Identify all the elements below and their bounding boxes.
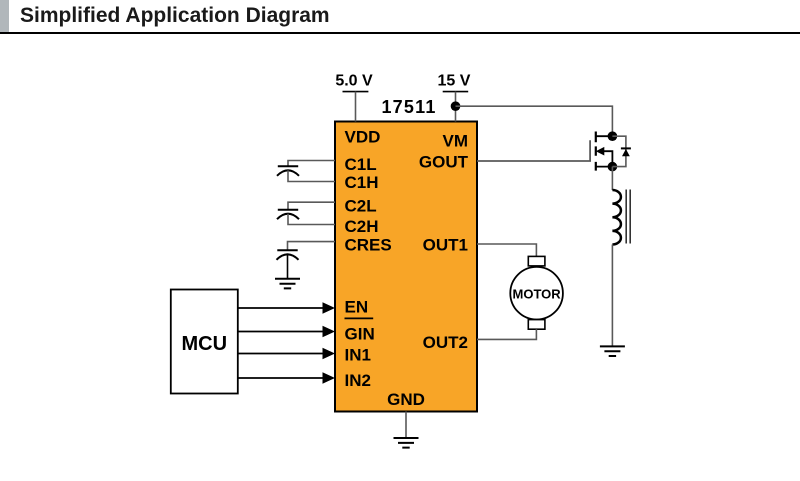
MCU box [171,290,238,394]
motor M1 circle [510,267,563,320]
ground under GND [394,438,419,448]
transistor Q1 channel segments [595,132,597,171]
capacitor C3 flat plate [277,249,297,251]
ground under inductor [600,346,625,356]
wire arrow MCU to EN [238,307,324,309]
svg-text:CRES: CRES [345,236,392,255]
header gray tab [0,0,9,32]
wire body diode branch [612,136,626,166]
node source dot [608,162,618,172]
wire 5.0V to VDD [355,92,357,122]
svg-text:GND: GND [387,390,425,409]
wire arrow MCU to IN2 [238,377,324,379]
svg-text:MCU: MCU [182,333,228,355]
motor bottom brush [528,320,545,330]
wire GND to ground [405,412,407,439]
svg-text:EN: EN [345,298,369,317]
capacitor C2 curved plate [277,214,299,220]
supply 5.0 V bar [343,91,369,93]
IC U1 17511 body [335,122,477,412]
inductor L1 core lines [626,190,630,244]
supply 15 V bar [443,91,469,93]
wire source to inductor [611,167,613,190]
wire inductor to ground [611,245,613,347]
capacitor C2 top wire (C2L) [288,202,335,210]
capacitor C1 top wire (C1L) [288,161,335,167]
wire 15V rail to MOSFET drain [456,106,613,132]
ground under C3 [275,279,300,289]
svg-text:C1H: C1H [345,173,379,192]
svg-text:VDD: VDD [345,128,381,147]
transistor Q1 body arrow [596,147,605,156]
inductor L1 coil [612,190,621,245]
wire 15V to VM [455,92,457,122]
svg-text:C2L: C2L [345,197,377,216]
svg-text:IN1: IN1 [345,346,371,365]
diode D1 triangle [622,149,630,156]
svg-text:OUT2: OUT2 [423,333,468,352]
capacitor C2 flat plate [278,209,298,211]
capacitor C1 bottom wire (C1H) [288,170,335,181]
svg-text:IN2: IN2 [345,371,371,390]
capacitor C2 bottom wire (C2H) [288,214,335,225]
svg-text:15 V: 15 V [438,73,471,90]
node 15V junction dot [451,101,461,111]
title text [20,4,330,28]
wire motor to OUT2 [477,329,536,339]
pin EN underline [345,317,374,319]
capacitor C3 curved plate [277,254,299,260]
svg-text:5.0 V: 5.0 V [335,73,373,90]
svg-text:C2H: C2H [345,217,379,236]
capacitor C3 wire (CRES) [288,242,336,251]
diode D1 cathode bar [621,147,631,149]
wire OUT1 to motor [477,244,536,257]
svg-text:17511: 17511 [381,97,436,117]
capacitor C1 curved plate [277,170,299,176]
wire arrow MCU to IN1 [238,353,324,355]
svg-text:OUT1: OUT1 [423,236,468,255]
svg-text:GOUT: GOUT [419,152,469,171]
transistor Q1 source stub [596,166,613,168]
header rule [0,32,800,34]
wire GOUT to gate [477,140,590,161]
svg-text:C1L: C1L [345,155,377,174]
capacitor C3 stem to ground [287,254,289,278]
node drain dot [608,131,618,141]
svg-text:VM: VM [443,131,469,150]
capacitor C1 flat plate [278,165,298,167]
motor top brush [528,256,545,266]
transistor Q1 drain stub [596,135,613,137]
svg-text:GIN: GIN [345,325,375,344]
transistor Q1 body stub [603,151,612,166]
wire arrow MCU to GIN [238,331,324,333]
svg-text:MOTOR: MOTOR [513,287,562,302]
